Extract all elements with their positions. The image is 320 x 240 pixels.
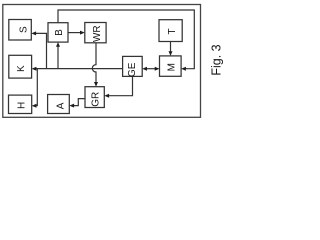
- svg-text:K: K: [16, 65, 27, 72]
- svg-text:H: H: [17, 102, 28, 109]
- svg-text:B: B: [54, 29, 65, 36]
- svg-text:WR: WR: [92, 25, 103, 42]
- svg-text:GE: GE: [127, 62, 138, 77]
- svg-text:T: T: [167, 28, 178, 34]
- svg-text:M: M: [167, 63, 178, 71]
- svg-text:A: A: [55, 102, 66, 109]
- svg-text:Fig. 3: Fig. 3: [210, 44, 224, 75]
- svg-text:GR: GR: [91, 92, 102, 107]
- svg-text:S: S: [18, 26, 29, 33]
